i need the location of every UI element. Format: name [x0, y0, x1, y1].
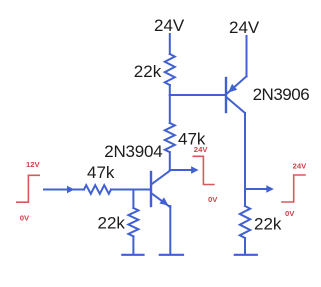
svg-text:0V: 0V: [208, 195, 218, 204]
wire node B2 down to R4: [169, 95, 171, 123]
transistor Q1 emitter lead with NPN arrow: [152, 194, 170, 208]
svg-text:24V: 24V: [229, 18, 260, 37]
wire R1 to node B1 (Q1 base node): [111, 189, 133, 191]
node VOUT output step annotation (rising edge): [282, 175, 305, 202]
power supply +24V (net 2, Q2 emitter): [229, 18, 260, 37]
wire Q1 emitter to ground: [169, 206, 171, 254]
wire node B1 down to R2: [132, 190, 134, 209]
svg-text:22k: 22k: [98, 214, 126, 233]
wire node B1 to Q1 base: [133, 189, 150, 191]
ground symbol G3: [235, 254, 257, 256]
resistor R3 22k (upper collector-load / Q2 base resistor): [165, 54, 175, 85]
label 0V (C1 low level, red): [208, 195, 218, 204]
label 24V (C1 high level, red): [194, 145, 209, 154]
svg-text:24V: 24V: [154, 16, 185, 35]
transistor Q2 collector lead: [227, 98, 245, 114]
wire R3 to node B2: [169, 85, 171, 95]
power supply +24V (net 1, feeds R3): [154, 16, 185, 35]
svg-text:22k: 22k: [134, 62, 162, 81]
wire node VOUT output arrow: [245, 185, 274, 192]
node C1 output step annotation (falling edge): [193, 156, 214, 184]
label 2N3904 (Q1): [104, 142, 162, 161]
ground symbol G1: [122, 254, 143, 256]
wire R5 to ground: [244, 238, 246, 254]
label 47k (R1 value): [87, 163, 115, 182]
resistor R5 22k (Q2 collector load): [240, 206, 250, 238]
transistor Q2 2N3906 PNP: base bar: [225, 78, 227, 112]
ground symbol G2: [160, 254, 183, 256]
svg-text:24V: 24V: [194, 145, 209, 154]
wire R4 to node C1 (Q1 collector): [169, 152, 171, 170]
resistor R2 22k (base pulldown): [128, 208, 138, 236]
svg-text:0V: 0V: [20, 214, 30, 223]
svg-text:47k: 47k: [87, 163, 115, 182]
label 24V (VOUT high level, red): [293, 162, 308, 171]
label 0V (input low level): [20, 214, 30, 223]
svg-text:22k: 22k: [254, 215, 282, 234]
transistor Q2 emitter lead with PNP arrow (points at bar): [227, 76, 246, 93]
svg-text:2N3904: 2N3904: [104, 142, 162, 161]
wire Q2 collector down to node VOUT: [244, 113, 246, 189]
resistor R4 47k: [165, 123, 175, 152]
wire 24V to R3: [169, 34, 171, 54]
wire node C1 output arrow (Q1 collector output): [170, 166, 199, 173]
svg-text:0V: 0V: [285, 209, 295, 218]
resistor R1 47k (horizontal, series base resistor): [84, 185, 111, 194]
svg-text:2N3906: 2N3906: [253, 85, 310, 104]
label 2N3906 (Q2): [253, 85, 310, 104]
label 22k (R2 value): [98, 214, 126, 233]
wire 24V to Q2 emitter: [246, 36, 248, 76]
wire input source to R1 with signal-direction arrow: [44, 186, 84, 193]
label 22k (R5 value): [254, 215, 282, 234]
node VIN: input step-source annotation (rising edge): [17, 175, 39, 202]
label 47k (R4 value): [178, 130, 206, 149]
wire node VOUT down to R5: [244, 189, 246, 206]
svg-text:24V: 24V: [293, 162, 308, 171]
label 0V (VOUT low level, red): [285, 209, 295, 218]
label 22k (R3 value): [134, 62, 162, 81]
transistor Q1 2N3904 NPN: base bar: [150, 172, 152, 206]
label 12V (input high level): [26, 160, 41, 169]
wire R2 to ground: [132, 236, 134, 254]
wire node B2 to Q2 base (horizontal): [170, 94, 225, 96]
svg-text:12V: 12V: [26, 160, 41, 169]
transistor Q1 collector lead: [152, 171, 170, 184]
